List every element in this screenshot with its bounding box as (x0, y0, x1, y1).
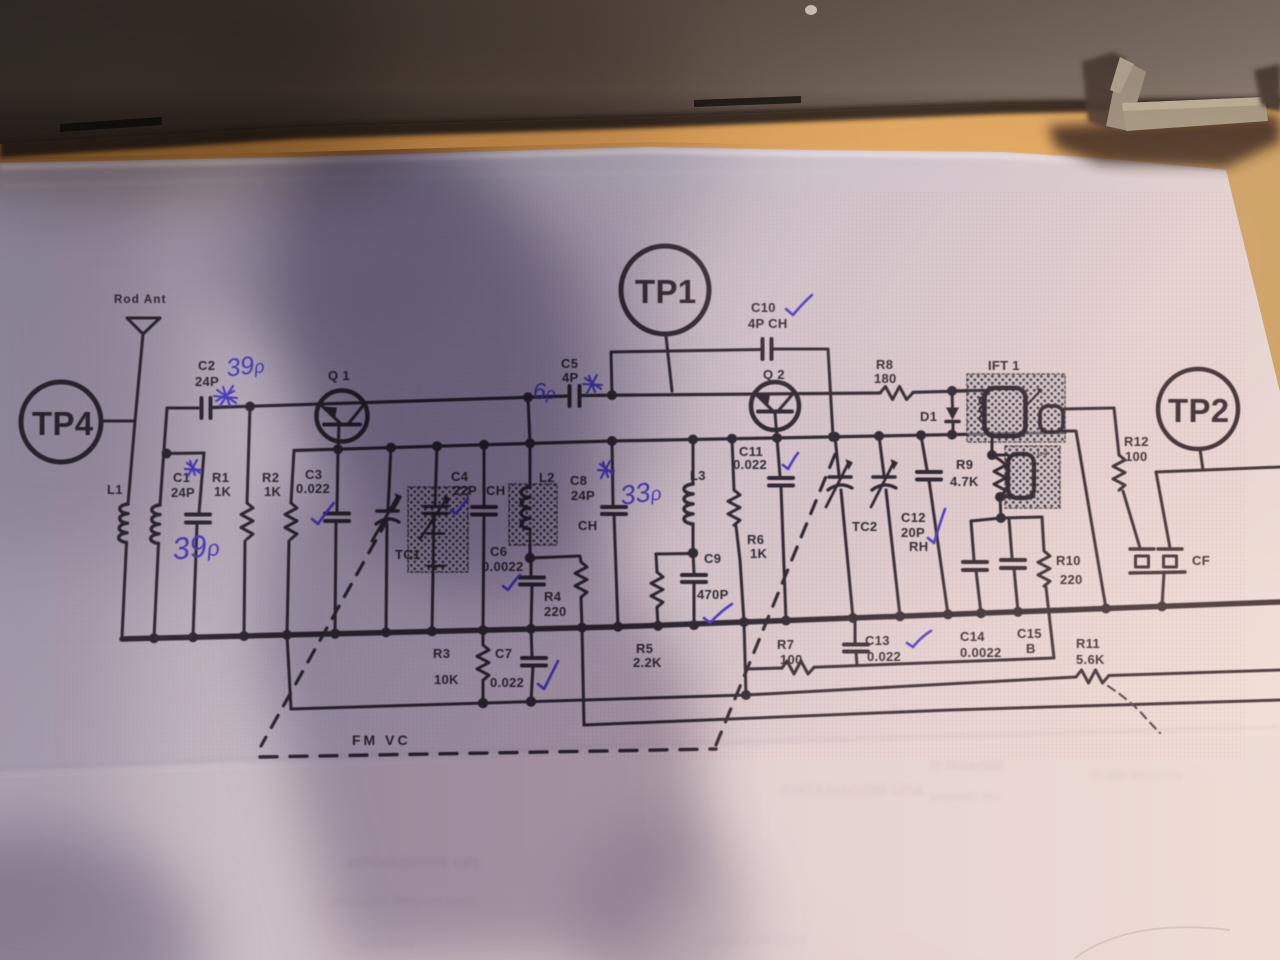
dashed borders of shaded blocks (408, 487, 468, 572)
FM VC dashed boundary (261, 497, 400, 746)
pen check C6 (503, 575, 520, 590)
collector rail segment C (581, 393, 880, 396)
crystal filter CF (1130, 547, 1182, 550)
pen check C13 (907, 631, 931, 647)
trimmer TC2 (879, 436, 884, 475)
svg-text:R9: R9 (956, 457, 973, 472)
inductor L1 second winding column (160, 408, 167, 505)
device bottom dark seam (0, 97, 1280, 158)
TP2 (1158, 369, 1238, 449)
sheet edge highlight (0, 733, 1280, 774)
variable capacitor (FM gang 2) (835, 437, 839, 475)
resistor R1 (247, 407, 250, 504)
schematic labels (32, 273, 1229, 748)
svg-text:D1: D1 (920, 409, 937, 424)
shadows on paper (0, 76, 750, 960)
collector rail segment A (167, 407, 199, 410)
svg-text:24P: 24P (195, 374, 219, 389)
warm light (640, 105, 1280, 960)
inductor L2 + block (509, 484, 557, 545)
svg-text:RH: RH (909, 539, 928, 554)
wire rail2 (291, 677, 1076, 709)
pen check C9 (704, 604, 732, 623)
collector rail segment D (913, 391, 985, 393)
resistor R10 (1042, 517, 1044, 551)
capacitor C12 (921, 435, 927, 470)
TP1 top rail (611, 350, 761, 353)
IFT1 coupling winding (1040, 406, 1063, 432)
svg-text:C2: C2 (198, 358, 215, 373)
TP4 (21, 382, 101, 462)
schematic ink (21, 246, 1280, 757)
capacitor C5 (570, 386, 580, 406)
wire R7 rail right (814, 658, 1054, 667)
capacitor C2 (202, 398, 211, 418)
wire R7 rail (746, 668, 782, 669)
resistor R5 (656, 552, 693, 556)
pen check C12 (928, 509, 945, 543)
resistor R4 branch (530, 556, 581, 562)
svg-text:R6: R6 (747, 532, 764, 547)
manila folder strip (1120, 128, 1280, 395)
resistor R11 (1076, 670, 1109, 683)
shadow on device top-left (0, 0, 690, 195)
svg-text:1K: 1K (214, 484, 232, 499)
slot middle (694, 96, 801, 107)
pen check C10 (786, 295, 812, 315)
transformer IFT1 block (967, 374, 1065, 442)
svg-text:20P: 20P (901, 525, 925, 540)
svg-text:C3: C3 (305, 467, 322, 482)
capacitor C8 (612, 441, 613, 505)
resistor R6 (732, 439, 734, 490)
bracket cast shadow (1048, 114, 1280, 168)
transistor Q1 (317, 391, 368, 442)
svg-text:L3: L3 (690, 468, 706, 483)
capacitor C15 (1009, 519, 1012, 558)
device (dark body at top) (0, 0, 1280, 144)
capacitor C11 (777, 438, 780, 476)
svg-text:TC2: TC2 (852, 519, 877, 534)
inductor L3 (692, 440, 695, 485)
wire rail2 right (1109, 670, 1280, 676)
svg-text:C12: C12 (901, 510, 926, 525)
transistor Q2 (751, 382, 799, 430)
ghost print-through text on under sheet (330, 758, 1183, 951)
svg-text:1K: 1K (750, 546, 768, 561)
pen check C3 (312, 503, 334, 524)
wire IFT secondary bottom to bus (1063, 431, 1106, 609)
resistor R3 (482, 630, 485, 645)
TP1 (621, 246, 709, 334)
pen asterisk C5 (583, 375, 602, 393)
diode D1 (951, 391, 955, 407)
bracket foot right (1082, 52, 1280, 131)
svg-text:470P: 470P (697, 587, 729, 602)
ground bus (122, 602, 1280, 639)
resistor R2 (291, 451, 294, 504)
wire C5 node up (611, 352, 612, 395)
capacitor C9 (693, 553, 694, 573)
capacitor C1 (199, 453, 204, 513)
IFT1 primary winding (985, 388, 1026, 436)
antenna (127, 318, 160, 334)
svg-text:4.7K: 4.7K (950, 474, 979, 489)
capacitor C6 (530, 558, 533, 576)
pen asterisk C1 (185, 460, 201, 476)
trimmer TC1 block (408, 487, 468, 572)
blue pen annotations (171, 295, 945, 689)
resistor R9 (992, 455, 1000, 460)
svg-text:R1: R1 (212, 470, 229, 485)
wire tertiary bottom (1000, 496, 1034, 499)
TP4 wire (101, 420, 135, 423)
resistor R8 (880, 387, 913, 400)
wire rail3 (584, 700, 1280, 725)
IFT1 tertiary winding L4 (1008, 454, 1034, 498)
resistor R7 (782, 661, 814, 674)
faint grid texture on printed area (55, 190, 1245, 760)
svg-text:L4: L4 (1037, 448, 1048, 458)
pen asterisk C8 (598, 461, 614, 478)
TP1 stub (666, 336, 672, 391)
capacitor C4 (483, 445, 486, 505)
wire TP2 rail (1156, 467, 1280, 472)
under sheet bottom (0, 735, 1280, 960)
pen check C7 (538, 661, 558, 689)
capacitor C3 (337, 450, 338, 511)
variable capacitor (FM gang 1) (388, 448, 391, 509)
wire C5 node column (528, 397, 530, 443)
base rail (294, 433, 1065, 451)
capacitor C10 (763, 339, 772, 359)
pen curve dash (1108, 686, 1160, 733)
svg-text:0.022: 0.022 (733, 457, 767, 472)
wire C14/C15/R10 header (971, 517, 1042, 521)
inductor L1 column (128, 334, 143, 504)
TP1 rail right + drop to tank rail (773, 349, 833, 437)
capacitor C14 (971, 521, 974, 560)
pen check C11 (783, 453, 798, 469)
wire IFT secondary top to R12 (1063, 408, 1114, 409)
capacitor C7 (531, 629, 532, 656)
capacitor C13 (854, 617, 857, 643)
collector rail segment B (212, 396, 569, 408)
wire C1 branch (167, 452, 205, 456)
wire D1 to primary (953, 389, 984, 393)
pen asterisk C2 (214, 386, 237, 406)
svg-text:C9: C9 (704, 551, 721, 566)
wire tertiary top (992, 436, 1008, 456)
slot left (60, 117, 162, 132)
resistor R12 (1114, 408, 1119, 455)
bright speck (805, 5, 817, 15)
paper top edge highlight (0, 151, 1222, 173)
svg-text:R2: R2 (262, 470, 279, 485)
pen check C4 (451, 499, 468, 514)
